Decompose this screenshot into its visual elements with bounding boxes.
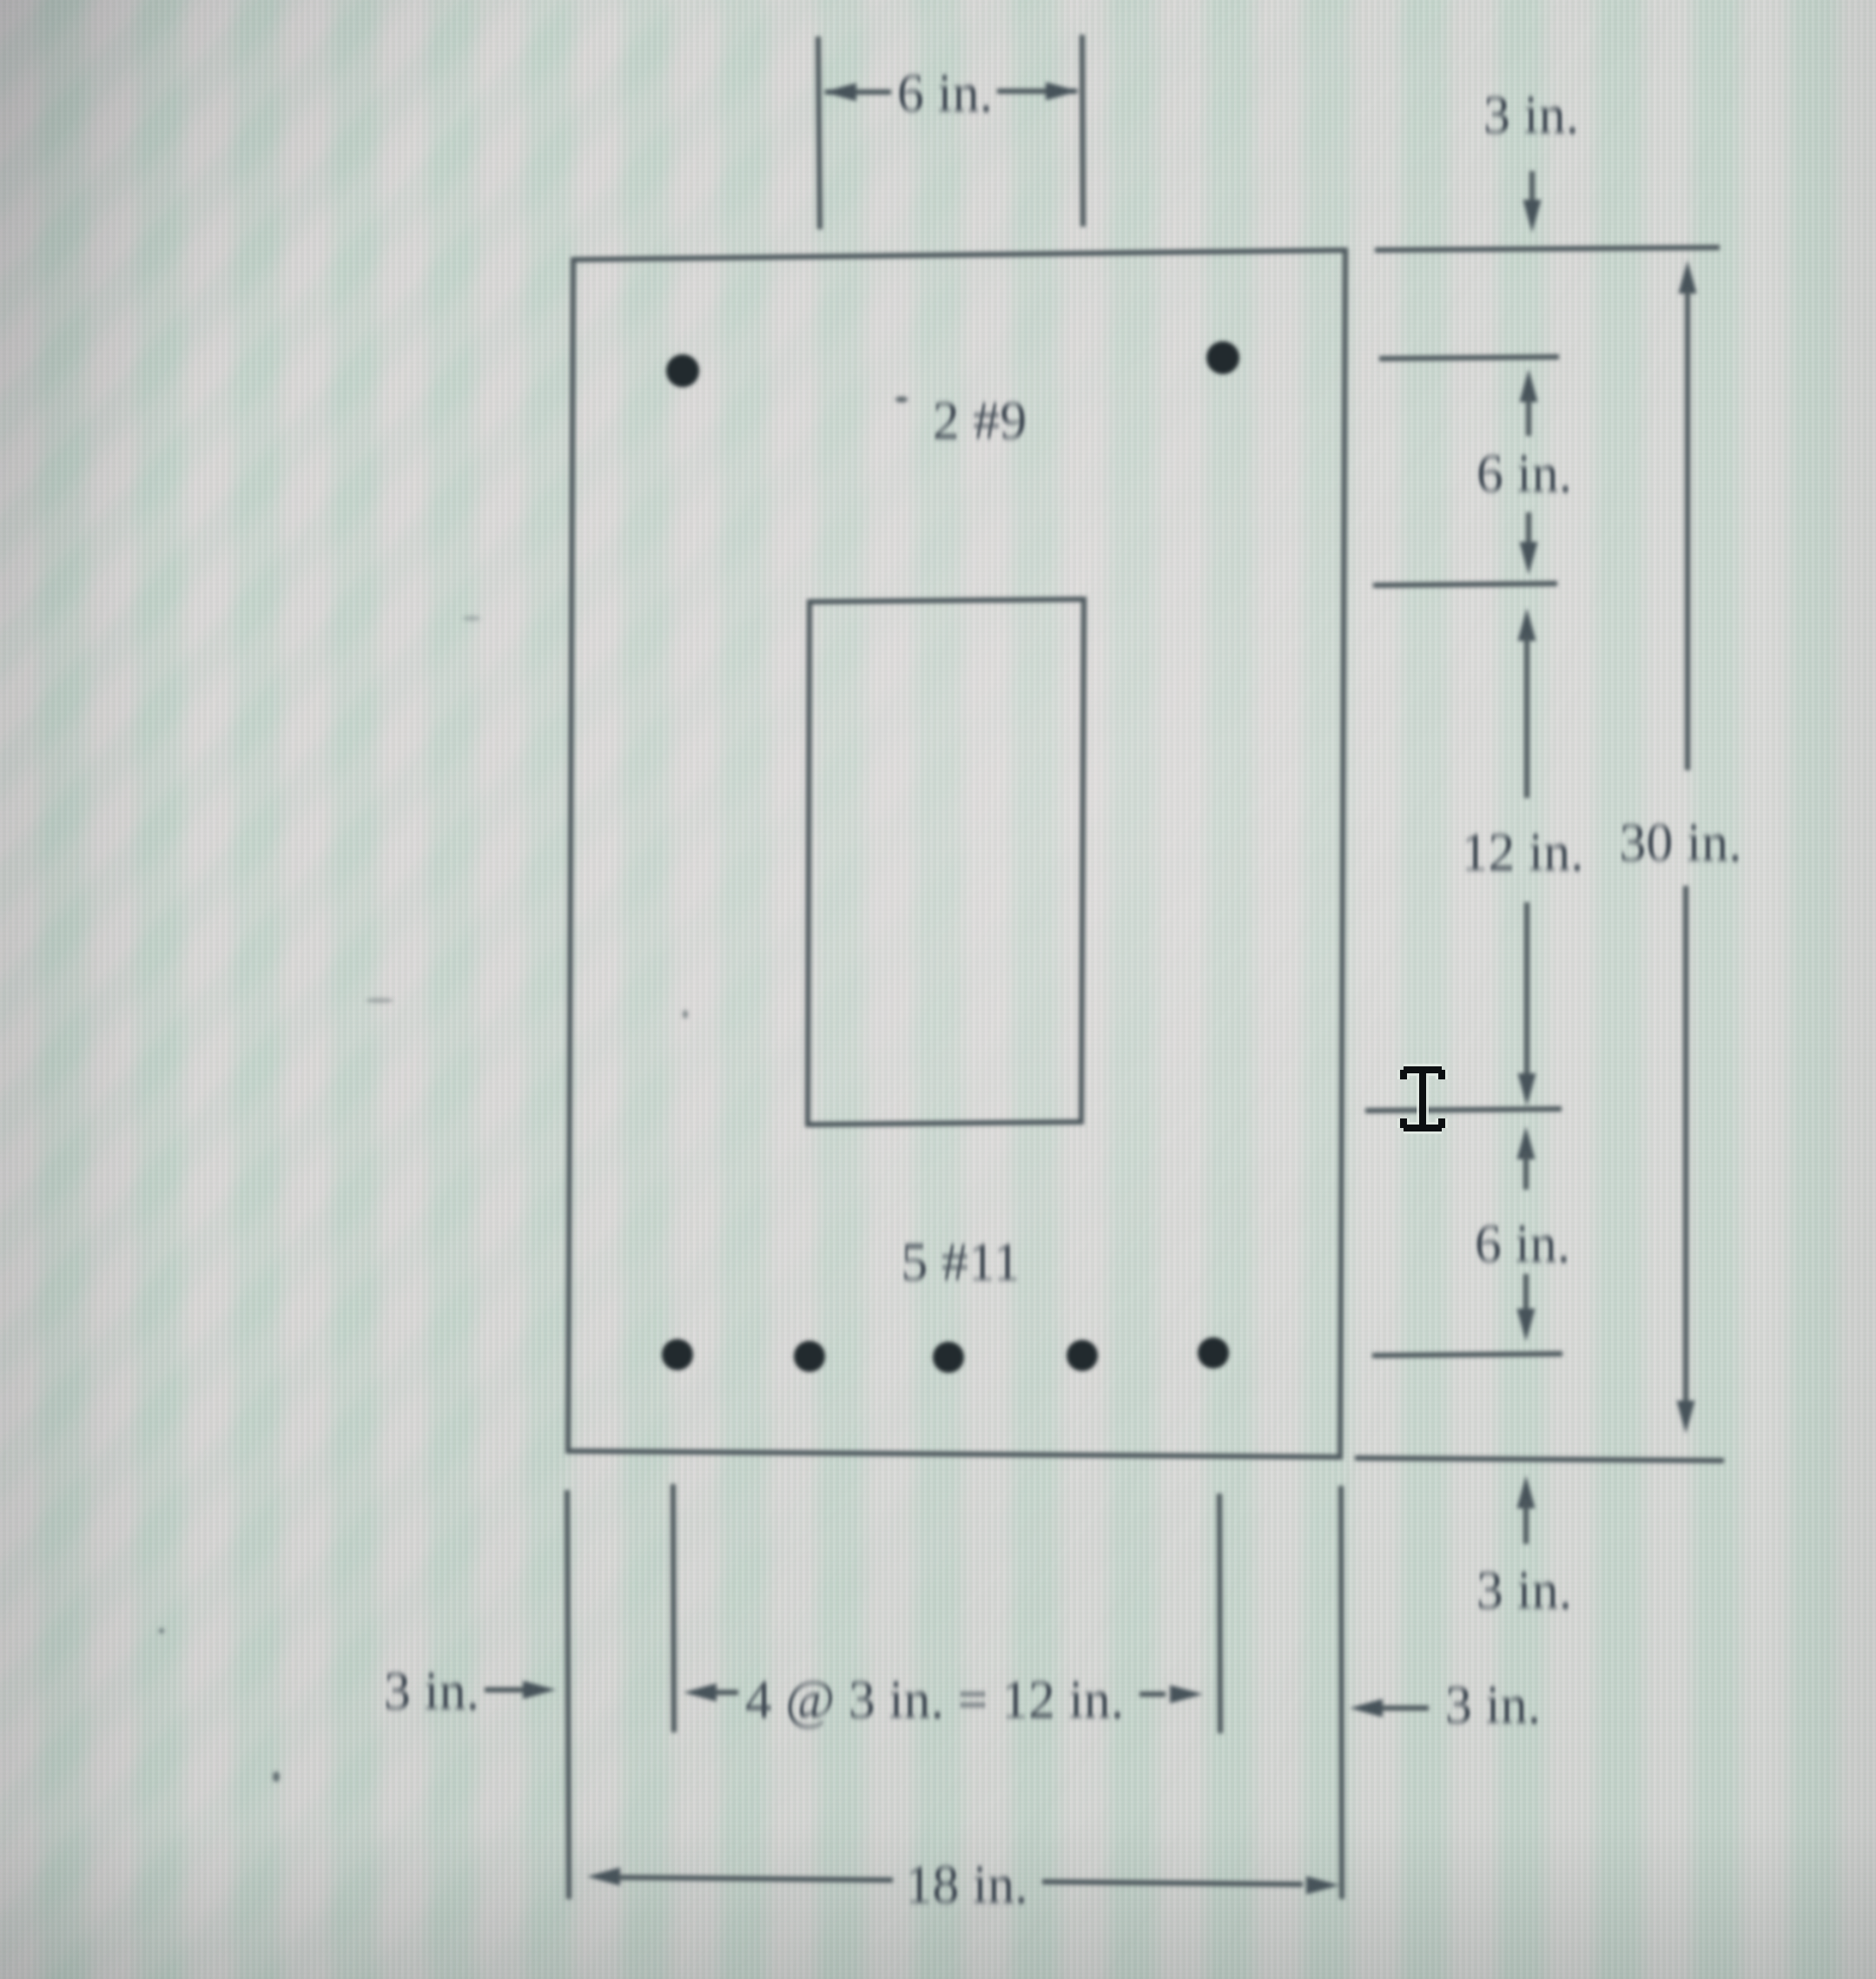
rebar dot top-left (#9) [666, 354, 699, 387]
dust specks (photo artifacts) [159, 397, 908, 1783]
extension line A: top edge level [1375, 247, 1720, 250]
dimension 18 in.: right line and arrow [1042, 1877, 1339, 1895]
extension line D: opening bottom level [1365, 1109, 1562, 1111]
dimension 6 in. top: left arrow [823, 83, 891, 102]
svg-text:3 in.: 3 in. [1445, 1676, 1541, 1735]
bottom extension tick 3 [1219, 1494, 1220, 1733]
top dimension extension tick left [818, 36, 820, 229]
rebar dot bottom 1 (#11) [662, 1339, 693, 1370]
svg-text:6 in.: 6 in. [1475, 1215, 1570, 1274]
dimension 30 in. right: up arrow and upper line [1679, 261, 1697, 770]
svg-text:4 @ 3 in. = 12 in.: 4 @ 3 in. = 12 in. [745, 1671, 1125, 1730]
dimension 12 in. right: lower line and down arrow [1518, 902, 1536, 1106]
rebar dot bottom 2 (#11) [794, 1341, 825, 1372]
extension line C: opening top level [1373, 584, 1557, 585]
extension line E: bottom rebar level [1372, 1354, 1562, 1356]
svg-text:5 #11: 5 #11 [901, 1233, 1020, 1292]
extension line B: top rebar level [1379, 357, 1559, 359]
dimension 6 in. upper right: down arrow [1520, 512, 1538, 575]
svg-text:12 in.: 12 in. [1461, 823, 1583, 882]
svg-text:6 in.: 6 in. [897, 64, 993, 123]
dimension 6 in. lower right: down arrow [1517, 1274, 1536, 1342]
svg-text:3 in.: 3 in. [384, 1662, 479, 1721]
dimension 6 in. top: right arrow [997, 82, 1079, 101]
svg-text:2 #9: 2 #9 [933, 392, 1027, 451]
dimension 3 in. bottom left: right arrow [485, 1681, 556, 1699]
text cursor I-beam artifact [1404, 1070, 1442, 1128]
bottom extension tick 2 [673, 1484, 674, 1732]
dimension 4 @ 3 in. = 12 in.: left arrow [684, 1684, 738, 1702]
bottom extension tick 1 (left edge) [567, 1490, 569, 1899]
dimension 18 in.: left arrow and line [587, 1868, 893, 1886]
dimension 3 in. bottom right horizontal: left arrow [1350, 1699, 1429, 1718]
svg-text:30 in.: 30 in. [1619, 814, 1741, 873]
bottom extension tick 4 (right edge) [1341, 1486, 1342, 1899]
dimension 6 in. lower right: up arrow [1517, 1126, 1536, 1190]
duct opening rectangle 6x12 [808, 599, 1084, 1125]
dimension 3 in. top right: down arrow [1523, 171, 1542, 233]
beam cross-section outline 18x30 [568, 250, 1345, 1457]
rebar dot bottom 4 (#11) [1067, 1340, 1098, 1371]
rebar dot bottom 3 (#11) [933, 1342, 964, 1373]
rebar dot bottom 5 (#11) [1198, 1337, 1229, 1369]
dimension 30 in. right: lower line and down arrow [1677, 886, 1695, 1434]
svg-text:18 in.: 18 in. [905, 1856, 1027, 1915]
rebar dot top-right (#9) [1206, 341, 1239, 374]
dimension 6 in. upper right: up arrow [1520, 369, 1538, 436]
extension line F: bottom edge level [1355, 1458, 1724, 1461]
dimension 3 in. bottom right vertical: up arrow [1517, 1475, 1536, 1544]
svg-text:3 in.: 3 in. [1476, 1561, 1572, 1620]
top dimension extension tick right [1082, 35, 1083, 227]
dimension 12 in. right: up arrow and upper line [1518, 608, 1536, 798]
dimension 4 @ 3 in. = 12 in.: right arrow [1139, 1685, 1203, 1704]
svg-text:6 in.: 6 in. [1476, 445, 1572, 504]
svg-text:3 in.: 3 in. [1483, 86, 1579, 145]
